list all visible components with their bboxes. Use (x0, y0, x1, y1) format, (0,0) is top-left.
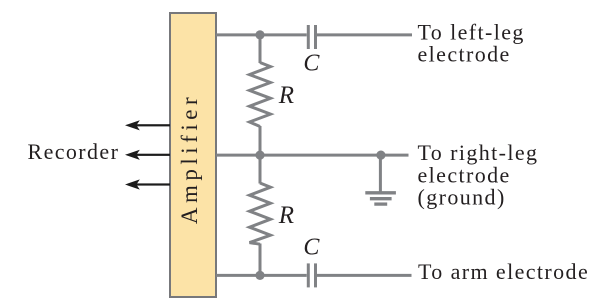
svg-text:C: C (303, 235, 320, 261)
svg-text:Recorder: Recorder (28, 139, 120, 164)
node junction dot top (255, 30, 264, 39)
arrow to recorder 3 (125, 179, 170, 189)
ground (365, 155, 396, 204)
svg-text:To arm electrode: To arm electrode (418, 259, 589, 284)
node junction dot bottom (255, 271, 264, 280)
arrow to recorder 1 (125, 120, 170, 130)
wire vertical R2 to bottom node (259, 244, 262, 276)
amplifier box U1 (170, 13, 216, 297)
wire top from amplifier to C (216, 33, 307, 36)
capacitor C1 (308, 25, 315, 49)
resistor R2 (250, 183, 271, 244)
svg-text:R: R (278, 202, 296, 229)
node junction dot middle (255, 151, 264, 160)
svg-text:C: C (303, 51, 320, 77)
svg-text:Amplifier: Amplifier (177, 93, 202, 224)
svg-text:(ground): (ground) (418, 185, 506, 210)
wire vertical middle node to R2 (259, 155, 262, 184)
wire middle from amplifier to right-leg electrode (216, 154, 409, 157)
wire bottom from amplifier to C (216, 274, 307, 277)
wire bottom from C to arm electrode (317, 274, 412, 277)
node junction dot ground tap (376, 151, 385, 160)
wire top from C to left-leg electrode (317, 33, 412, 36)
capacitor C2 (308, 263, 315, 287)
wire vertical top node to R1 (259, 35, 262, 63)
svg-text:R: R (278, 82, 296, 109)
svg-text:electrode: electrode (418, 41, 511, 66)
arrow to recorder 2 (125, 150, 170, 160)
resistor R1 (250, 63, 271, 127)
wire vertical R1 to middle node (259, 126, 262, 155)
